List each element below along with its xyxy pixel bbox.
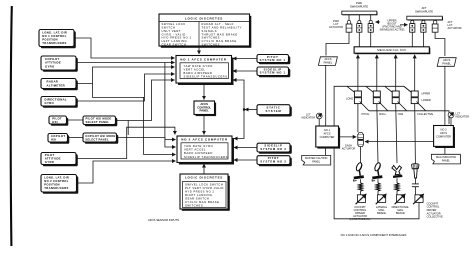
svg-text:ROLL: ROLL xyxy=(379,112,386,116)
svg-text:NO 2 CONTROL: NO 2 CONTROL xyxy=(44,179,68,183)
svg-text:COMPUTER: COMPUTER xyxy=(320,135,335,139)
svg-text:HYD PRESS NO 2: HYD PRESS NO 2 xyxy=(185,189,214,193)
svg-text:COPILOT: COPILOT xyxy=(51,134,65,138)
svg-text:HSI: HSI xyxy=(52,120,57,124)
svg-text:HSI: HSI xyxy=(51,138,56,142)
svg-text:SYSTEM NO 1: SYSTEM NO 1 xyxy=(260,71,286,75)
svg-text:GYRO: GYRO xyxy=(45,64,55,68)
svg-text:SWASHPLATE: SWASHPLATE xyxy=(415,9,433,13)
svg-text:GEAR SWITCH: GEAR SWITCH xyxy=(185,197,209,201)
svg-text:LOWER: LOWER xyxy=(422,99,431,102)
svg-text:SIDESLIP TRANSDUCERS: SIDESLIP TRANSDUCERS xyxy=(184,155,228,159)
svg-text:ACTUATOR: ACTUATOR xyxy=(329,25,343,29)
svg-text:MECHANICAL MIX: MECHANICAL MIX xyxy=(377,48,406,52)
svg-text:PANEL: PANEL xyxy=(324,60,333,64)
svg-text:NO 2 AFCS COMPUTER: NO 2 AFCS COMPUTER xyxy=(181,138,228,142)
svg-text:AFCS SENSOR INPUTS: AFCS SENSOR INPUTS xyxy=(148,218,179,222)
svg-text:YAW RATE GYRO: YAW RATE GYRO xyxy=(184,64,213,68)
svg-text:COPILOT HSI MODE: COPILOT HSI MODE xyxy=(85,134,115,138)
svg-text:SIDESLIP TRANSDUCERS: SIDESLIP TRANSDUCERS xyxy=(184,75,228,79)
svg-text:PILOT HSI MODE: PILOT HSI MODE xyxy=(86,117,112,121)
svg-text:BARO AIRSPEED: BARO AIRSPEED xyxy=(184,71,213,75)
svg-text:LONG, LAT, DIR: LONG, LAT, DIR xyxy=(44,175,69,179)
svg-text:PILOT: PILOT xyxy=(52,116,62,120)
svg-text:BARO AIRSPEED: BARO AIRSPEED xyxy=(184,151,213,155)
svg-text:SELECT PANEL: SELECT PANEL xyxy=(86,120,110,124)
svg-text:SWITCHES: SWITCHES xyxy=(185,204,203,208)
svg-text:LOGIC DISCRETES: LOGIC DISCRETES xyxy=(185,176,223,180)
svg-text:COLLECTIVE: COLLECTIVE xyxy=(427,215,443,219)
svg-text:LONG: LONG xyxy=(346,97,353,100)
svg-text:PLT VERT GYRO-VALID: PLT VERT GYRO-VALID xyxy=(185,186,224,190)
svg-text:LOGIC DISCRETES: LOGIC DISCRETES xyxy=(185,16,223,20)
svg-text:GEAR SWITCH: GEAR SWITCH xyxy=(162,42,187,46)
svg-text:COLLECTIVE: COLLECTIVE xyxy=(417,112,433,116)
svg-text:NO 1 AND NO 2 AFCS COMPONENT I: NO 1 AND NO 2 AFCS COMPONENT INTERFACES xyxy=(341,233,407,237)
svg-text:COMPUTER: COMPUTER xyxy=(436,134,451,138)
svg-text:ALTIMETER: ALTIMETER xyxy=(47,83,66,87)
svg-text:INDICATOR: INDICATOR xyxy=(302,116,316,119)
svg-text:SWIVELING ACTRS): SWIVELING ACTRS) xyxy=(380,28,405,32)
svg-text:BRAKE: BRAKE xyxy=(377,211,386,215)
svg-text:ACTUATOR: ACTUATOR xyxy=(448,26,462,30)
svg-text:VERT ACCEL: VERT ACCEL xyxy=(184,67,206,71)
svg-text:CYCLIC MAG BRAKE: CYCLIC MAG BRAKE xyxy=(185,200,219,204)
svg-text:SYSTEM: SYSTEM xyxy=(266,109,282,113)
svg-text:PANEL: PANEL xyxy=(312,160,321,163)
svg-text:PANEL: PANEL xyxy=(442,61,451,65)
svg-text:SYSTEM NO 2: SYSTEM NO 2 xyxy=(260,159,286,163)
svg-text:GYRO: GYRO xyxy=(45,160,55,164)
svg-text:LONG, LAT, DIR: LONG, LAT, DIR xyxy=(42,30,67,34)
svg-text:VERT ACCEL: VERT ACCEL xyxy=(184,148,206,152)
svg-text:POSITION: POSITION xyxy=(42,37,58,41)
svg-text:YAW RATE GYRO: YAW RATE GYRO xyxy=(184,144,213,148)
svg-text:PANEL: PANEL xyxy=(442,159,451,162)
svg-text:SWASHPLATE: SWASHPLATE xyxy=(350,4,368,8)
svg-text:RIGHT LANDING: RIGHT LANDING xyxy=(185,193,212,197)
svg-text:BRAKE: BRAKE xyxy=(396,211,405,215)
svg-text:SYSTEM NO 1: SYSTEM NO 1 xyxy=(260,58,286,62)
svg-text:PANEL: PANEL xyxy=(200,109,210,113)
svg-text:ACTUATOR: ACTUATOR xyxy=(342,148,356,151)
svg-text:SWIVEL LOCK SWITCH: SWIVEL LOCK SWITCH xyxy=(185,182,223,186)
svg-text:SWITCHES: SWITCHES xyxy=(202,42,221,46)
svg-text:SYSTEM NO 2: SYSTEM NO 2 xyxy=(260,147,286,151)
svg-text:TRANSDUCERS: TRANSDUCERS xyxy=(44,186,68,190)
svg-text:UPPER: UPPER xyxy=(422,92,431,95)
svg-text:POSITION: POSITION xyxy=(44,182,60,186)
svg-text:NO 1 AFCS COMPUTER: NO 1 AFCS COMPUTER xyxy=(180,57,227,61)
svg-text:INDICATOR: INDICATOR xyxy=(456,116,470,119)
svg-text:NO 1 CONTROL: NO 1 CONTROL xyxy=(42,34,66,38)
svg-text:TRANSDUCERS: TRANSDUCERS xyxy=(42,41,66,45)
svg-text:PITCH: PITCH xyxy=(362,112,370,116)
svg-text:GYRO: GYRO xyxy=(45,101,55,105)
svg-text:YAW: YAW xyxy=(398,112,404,116)
svg-text:SELECT PANEL: SELECT PANEL xyxy=(85,137,109,141)
